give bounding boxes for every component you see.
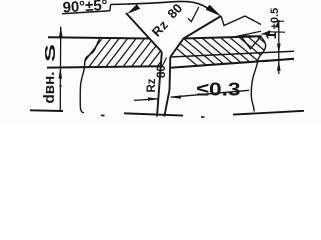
roughness mark on right surface bbox=[221, 16, 261, 26]
right groove bevel face + extension to angle arc bbox=[170, 16, 221, 57]
axis dash 3 bbox=[233, 111, 304, 115]
svg-text:+0.5: +0.5 bbox=[269, 8, 281, 30]
gap dimension left arrow line bbox=[134, 99, 158, 101]
hatch left pipe wall bbox=[78, 36, 181, 70]
svg-text:80: 80 bbox=[156, 65, 168, 78]
lower extension tick bbox=[262, 59, 294, 62]
svg-text:1: 1 bbox=[263, 31, 280, 39]
right pipe wall bottom edge (with extension to 1+0.5 dim) bbox=[170, 59, 294, 68]
right wall break line bbox=[251, 37, 265, 112]
top tick of 1+0.5 dim bbox=[274, 20, 284, 22]
left groove bevel face + extension to angle arc bbox=[126, 13, 162, 52]
finish symbol tail line bbox=[269, 31, 285, 33]
right pipe wall top edge bbox=[184, 36, 262, 38]
axis dot 1 bbox=[101, 114, 105, 116]
roughness label Rz80 at root gap bbox=[146, 65, 168, 92]
S / dвн bottom arrow bbox=[59, 68, 63, 78]
stray speck bbox=[59, 85, 61, 87]
finish symbol leader line bbox=[236, 31, 261, 36]
axis dash 2 bbox=[124, 113, 183, 115]
axis dot 2 bbox=[201, 116, 205, 118]
roughness tick of Rz80 bbox=[188, 7, 199, 22]
pipe axis dash-dot centerline bbox=[30, 109, 63, 112]
svg-text:dвн.: dвн. bbox=[41, 72, 58, 104]
lower arrow pointing up bbox=[277, 61, 281, 71]
left pipe wall top edge (with S extension) bbox=[48, 37, 150, 38]
right root face level line (extension for 1+0.5) bbox=[170, 51, 294, 57]
root height dimension line 1+0.5 bbox=[278, 20, 280, 74]
left pipe wall bottom edge (with extension) bbox=[47, 66, 162, 67]
finish symbol small arrow bbox=[260, 30, 270, 35]
gap left arrowhead bbox=[148, 97, 158, 101]
arc right arrowhead bbox=[206, 5, 222, 17]
gap right arrowhead bbox=[170, 95, 181, 99]
roughness label Rz80 on right bevel bbox=[148, 0, 186, 39]
gap dimension right arrow line bbox=[171, 90, 249, 97]
roughness tick at root gap bbox=[160, 58, 167, 67]
upper arrow pointing down bbox=[277, 44, 281, 54]
svg-text:S: S bbox=[42, 44, 59, 62]
small up arrow under top tick bbox=[275, 22, 279, 28]
hatch right pipe wall bbox=[158, 33, 295, 68]
left root face edge / gap extension line bbox=[157, 52, 162, 117]
arc left arrowhead bbox=[127, 4, 140, 14]
left wall break line bbox=[80, 39, 99, 113]
leader from shelf to arc bbox=[109, 5, 112, 11]
label 1+0.5 bbox=[263, 8, 281, 40]
S thickness dimension line bbox=[59, 27, 61, 113]
svg-text:Rz: Rz bbox=[146, 78, 158, 92]
text shelf underline bbox=[62, 11, 110, 14]
angle dimension arc bbox=[111, 1, 211, 10]
svg-text:≤0.3: ≤0.3 bbox=[197, 79, 241, 100]
right root face edge / gap extension line bbox=[164, 57, 170, 117]
S top arrow bbox=[59, 26, 63, 37]
finish symbol triangle bbox=[241, 36, 262, 49]
